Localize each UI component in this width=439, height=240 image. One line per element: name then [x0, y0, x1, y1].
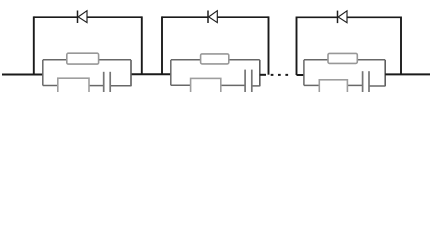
- wire: cell3 inner loop left vertical: [303, 60, 305, 86]
- diode D1 cathode bar: [77, 11, 79, 24]
- resistor R2 (cell1 lower box, clipped at image bottom): [58, 78, 89, 94]
- wire: cell3 lower branch right segment (C3 to loop): [369, 85, 385, 87]
- wire: cell2 inner loop right vertical (acts as C2 right plate, runs to bottom): [259, 60, 261, 86]
- wire: top wire left of diode D3: [297, 16, 338, 18]
- wire: cell2 lower branch mid segment (R4 to C2): [221, 84, 245, 86]
- resistor R4 (cell2 lower box, clipped at image bottom): [191, 78, 221, 94]
- wire: cell3 upper branch right segment: [357, 59, 385, 61]
- resistor R6 (cell3 lower box, clipped at image bottom): [319, 80, 347, 96]
- wire: cell3 inner loop right vertical: [384, 60, 386, 86]
- wire: cell1 inner loop right vertical: [130, 60, 132, 86]
- wire: cell1 upper branch right segment: [99, 59, 131, 61]
- wire: cell2 lower branch left segment: [171, 84, 190, 86]
- wire: cell3 outer left vertical: [296, 17, 298, 76]
- capacitor C3 left plate: [362, 71, 364, 92]
- resistor R3 (cell2 upper box): [201, 54, 229, 64]
- capacitor C2 right plate: [251, 70, 253, 92]
- wire: cell2 lower branch right segment (C2 plate to loop): [252, 85, 260, 87]
- diode D2 cathode bar: [207, 11, 209, 24]
- diode D2 triangle: [209, 11, 218, 23]
- wire: cell1 lower branch mid segment (R2 to C1): [89, 85, 104, 87]
- wire: cell2 bus stub to the right: [260, 74, 266, 76]
- wire: cell2 upper branch left segment: [171, 59, 201, 61]
- wire: cell1 lower branch right segment (C1 to loop): [110, 85, 131, 87]
- wire: cell2 upper branch right segment: [229, 59, 260, 61]
- wire: bus from cell1 inner loop to cell2 inner loop: [131, 73, 171, 75]
- wire: right bus out of cell3: [385, 73, 430, 75]
- wire: cell3 outer right vertical: [400, 17, 402, 75]
- wire: left bus into cell1: [2, 74, 43, 76]
- wire: top wire right of diode D2: [217, 16, 268, 18]
- capacitor C1 right plate: [109, 72, 111, 92]
- capacitor C2 left plate: [244, 70, 246, 92]
- wire: top wire left of diode D2: [162, 16, 208, 18]
- wire: cell2 inner loop left vertical: [170, 60, 172, 85]
- wire: top wire left of diode D1: [34, 16, 78, 18]
- capacitor C3 right plate: [368, 71, 370, 92]
- wire: cell1 inner loop left vertical: [42, 60, 44, 86]
- capacitor C1 left plate: [103, 72, 105, 92]
- node: continuation dots between cell2 and cell3: [271, 74, 288, 76]
- wire: top wire right of diode D1: [87, 16, 142, 18]
- wire: cell1 lower branch left segment: [43, 85, 58, 87]
- diode D3 triangle: [338, 11, 347, 23]
- wire: cell2 outer left vertical: [161, 16, 163, 74]
- wire: cell1 outer right vertical: [141, 16, 143, 74]
- wire: cell3 upper branch left segment: [304, 59, 328, 61]
- wire: cell3 lower branch mid segment (R6 to C3): [347, 84, 362, 86]
- wire: cell3 bus stub from outer left to inner loop: [297, 74, 304, 76]
- diode D1 triangle: [78, 11, 87, 23]
- wire: cell1 upper branch left segment: [43, 59, 67, 61]
- wire: cell1 outer left vertical: [33, 16, 35, 74]
- resistor R5 (cell3 upper box): [328, 53, 357, 63]
- wire: cell2 outer right vertical: [268, 16, 270, 74]
- diode D3 cathode bar: [337, 11, 339, 24]
- wire: top wire right of diode D3: [347, 16, 401, 18]
- wire: cell3 lower branch left segment: [304, 84, 319, 86]
- resistor R1 (cell1 upper box): [67, 53, 99, 64]
